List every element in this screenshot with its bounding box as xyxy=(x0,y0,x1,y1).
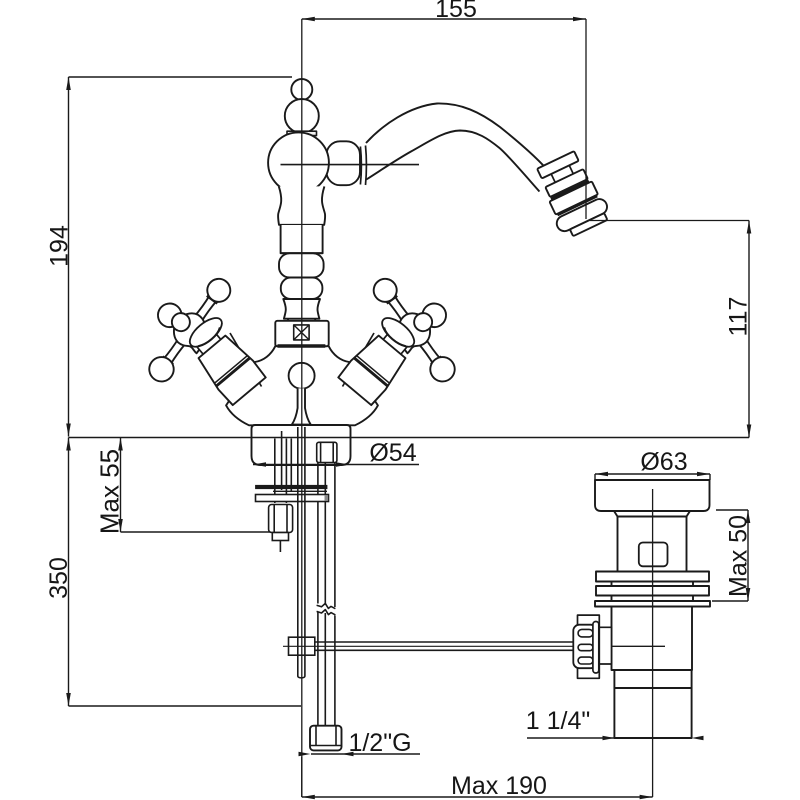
valve body left xyxy=(179,313,267,406)
supply tube xyxy=(317,463,319,604)
lever line inside body xyxy=(612,645,666,647)
svg-text:350: 350 xyxy=(45,557,73,599)
faucet head body xyxy=(268,132,329,193)
bead ring 1 xyxy=(279,253,324,277)
square hole xyxy=(639,543,668,567)
top finial small ball xyxy=(291,79,312,100)
mounting surface line xyxy=(69,437,750,439)
front ball xyxy=(168,310,193,335)
gasket washer dark xyxy=(256,485,328,488)
svg-text:1/2"G: 1/2"G xyxy=(348,729,411,757)
axis ball xyxy=(153,299,186,332)
horizontal rod to drain xyxy=(315,641,573,643)
arm stems xyxy=(193,295,217,323)
thin washer line xyxy=(273,490,327,492)
washer band 1 xyxy=(596,572,709,582)
knurl slots xyxy=(578,629,593,637)
pipe break symbol xyxy=(317,603,336,608)
base cap xyxy=(252,425,351,465)
svg-text:Ø63: Ø63 xyxy=(640,448,687,476)
washer band 3 xyxy=(595,601,710,607)
drain flange xyxy=(595,480,710,511)
svg-text:Max 55: Max 55 xyxy=(95,449,125,534)
155 extension right xyxy=(585,19,587,219)
spout joint knuckle xyxy=(327,141,361,185)
svg-text:1 1/4": 1 1/4" xyxy=(526,707,590,735)
flange step xyxy=(614,511,690,517)
dimension Max 50 xyxy=(712,510,753,601)
square nut box xyxy=(275,321,328,346)
body mid line xyxy=(281,164,420,166)
svg-text:Max 50: Max 50 xyxy=(725,515,753,597)
nut box lower lip xyxy=(278,345,325,348)
dimension 1/2 G xyxy=(299,729,421,757)
knurl right bar xyxy=(593,622,599,674)
pop-up vertical rod xyxy=(297,427,299,676)
117 extension top xyxy=(590,220,749,222)
arm ball inner xyxy=(144,352,178,386)
band spacer stubs xyxy=(611,582,613,587)
body seat diagonal left xyxy=(230,333,262,387)
svg-text:194: 194 xyxy=(46,225,74,267)
washer band 2 xyxy=(596,586,709,596)
pop-up rod clamp xyxy=(289,637,315,655)
aerator assembly xyxy=(531,148,613,240)
axis stem xyxy=(169,312,186,331)
column cylinder xyxy=(281,225,323,253)
dimension diameter 63 xyxy=(595,448,710,480)
dimension Max 55 xyxy=(95,438,283,535)
handle right assembly (mirror) xyxy=(336,259,479,405)
drain assembly xyxy=(573,480,710,738)
stud end below nut xyxy=(279,541,281,553)
hub xyxy=(168,307,216,355)
dimension 350 left xyxy=(45,438,301,707)
dimension diameter 54 xyxy=(253,439,419,467)
lower body flare xyxy=(226,346,378,425)
pop-up knob ball xyxy=(289,363,315,389)
1/2 G connector xyxy=(310,726,342,751)
dimension Max 190 xyxy=(302,757,653,800)
top finial large ball xyxy=(285,99,319,133)
bead ring 2 xyxy=(281,278,323,299)
dimension 155 top xyxy=(302,0,586,23)
joint washer lines xyxy=(359,147,362,185)
inner square with X xyxy=(294,325,309,340)
svg-text:155: 155 xyxy=(435,0,477,23)
mounting plate xyxy=(256,495,329,502)
svg-text:Max 190: Max 190 xyxy=(451,772,547,800)
threaded stud edges xyxy=(274,439,276,504)
svg-text:117: 117 xyxy=(725,297,753,337)
pop-up knob stem xyxy=(292,388,311,424)
dimension 117 right xyxy=(725,221,753,438)
knurled nut body xyxy=(573,625,596,669)
body seat diagonal right xyxy=(343,333,375,387)
centerline drain xyxy=(652,489,654,797)
vase segment xyxy=(283,299,320,319)
svg-text:Ø54: Ø54 xyxy=(369,439,416,467)
tailpiece upper xyxy=(614,670,691,688)
handle left assembly xyxy=(125,259,268,405)
mounting nut xyxy=(269,505,293,533)
drain neck xyxy=(617,517,619,572)
neck below body xyxy=(278,186,325,224)
knurled adjusting nut bracket xyxy=(578,615,600,678)
dimension 194 left xyxy=(46,77,293,437)
dimension 1 1/4 inch xyxy=(526,707,704,740)
small cylinder above nut xyxy=(287,319,289,321)
bell skirt xyxy=(185,313,226,352)
finial collar xyxy=(287,131,317,135)
centerline faucet xyxy=(301,19,303,797)
cross handle left xyxy=(125,259,241,390)
arm ball outer xyxy=(203,274,235,306)
spout tube xyxy=(366,103,551,174)
drain body xyxy=(612,607,693,671)
nut bottom collar xyxy=(272,533,288,541)
lever stem block xyxy=(599,627,611,664)
tailpiece lower xyxy=(614,688,691,738)
shank nut on tube xyxy=(317,442,337,462)
under-base internals xyxy=(256,427,666,750)
